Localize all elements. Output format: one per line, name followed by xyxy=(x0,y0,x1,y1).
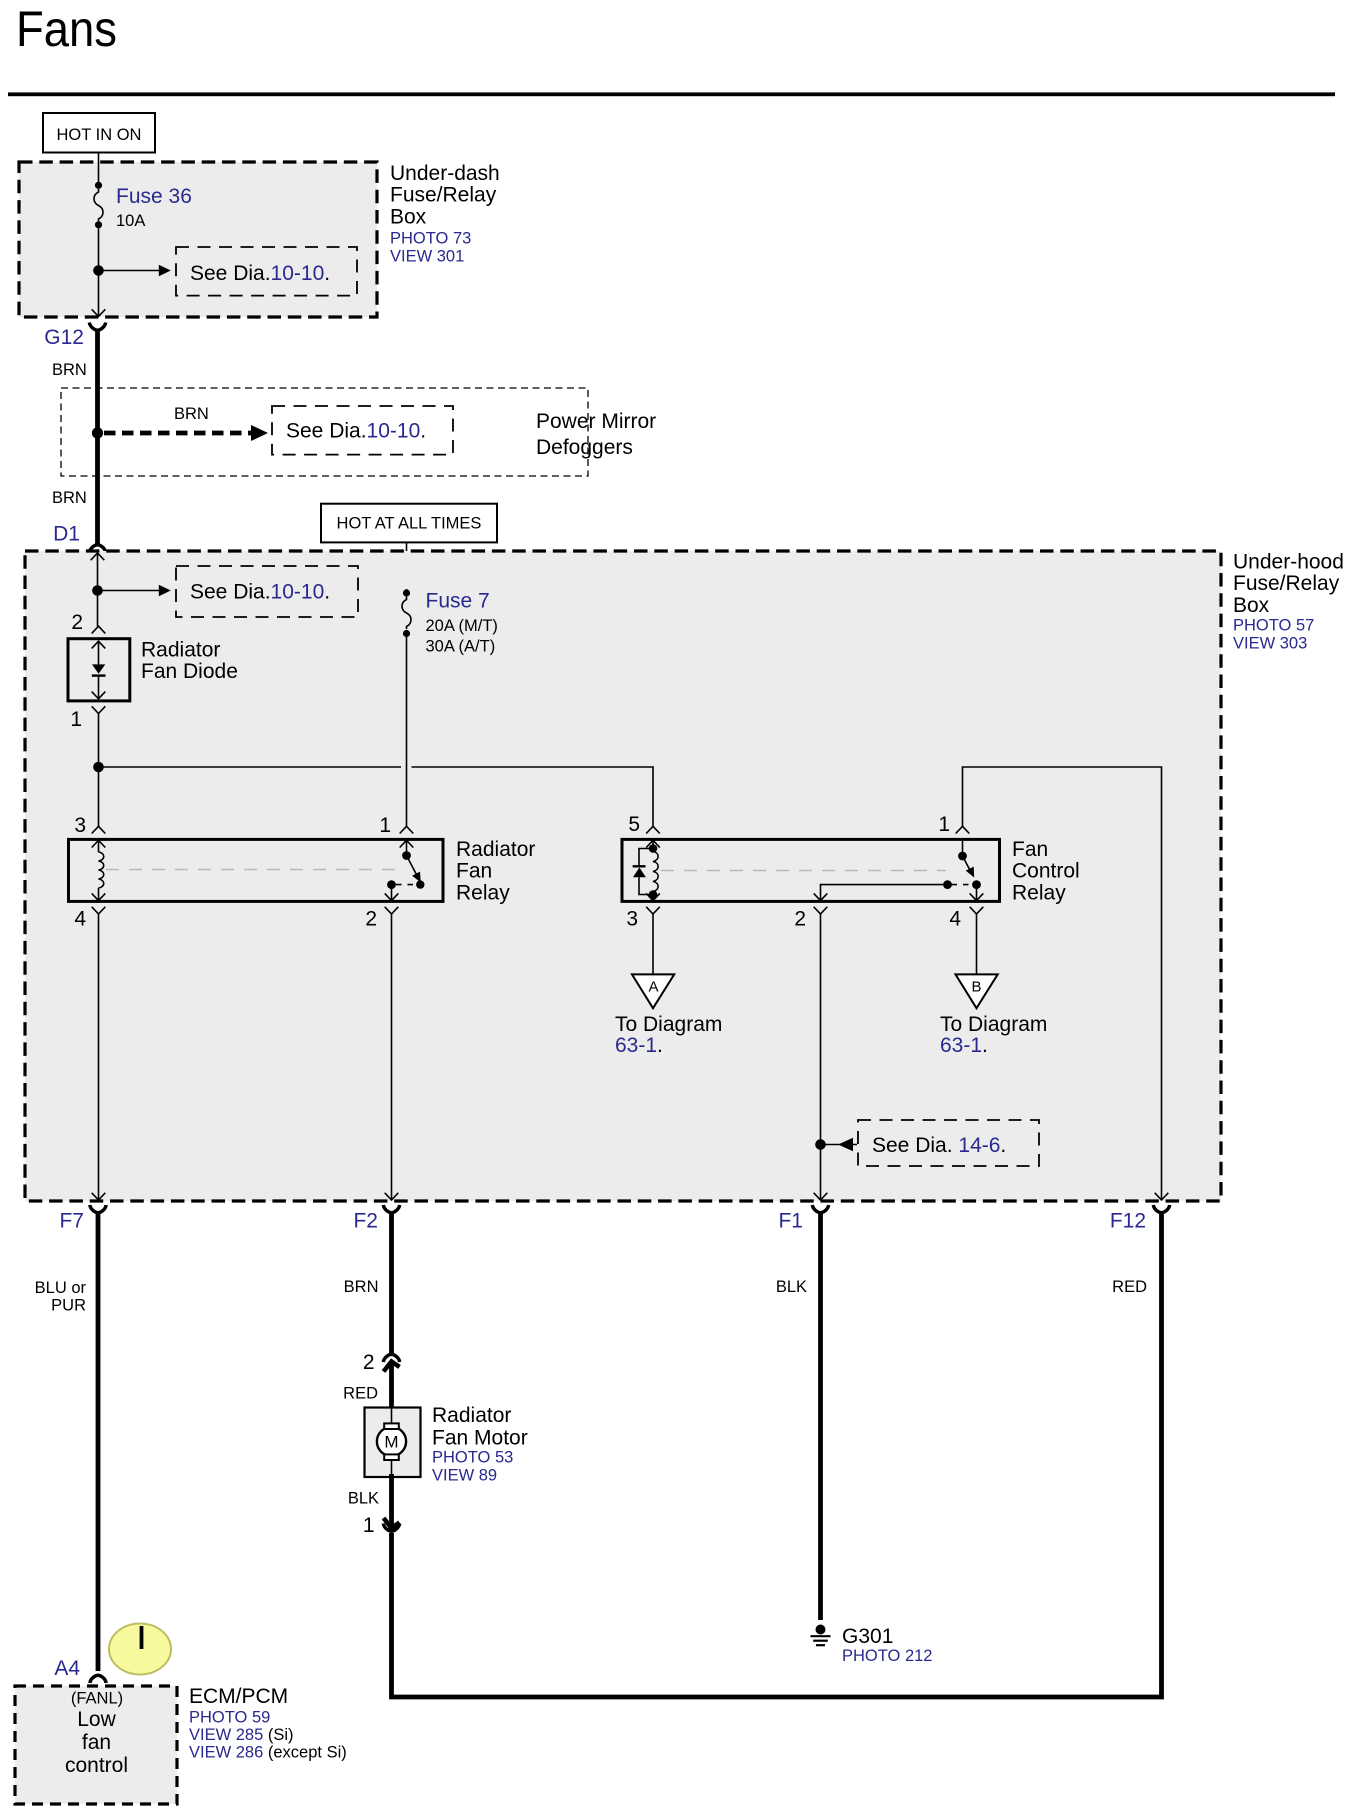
radiator fan relay coil xyxy=(92,840,106,900)
wire F2 to connector 2 (thick BRN) xyxy=(389,1212,394,1355)
wire F7 to A4 (thick) xyxy=(96,1212,101,1671)
node D1 label xyxy=(53,523,80,546)
svg-text:See Dia.10-10.: See Dia.10-10. xyxy=(190,262,330,285)
svg-text:VIEW 303: VIEW 303 xyxy=(1233,635,1307,653)
svg-text:PHOTO 73: PHOTO 73 xyxy=(390,230,471,248)
svg-text:See Dia.10-10.: See Dia.10-10. xyxy=(286,420,426,443)
fan control relay pin 3 label xyxy=(626,908,638,931)
motor pin 2 label xyxy=(363,1351,375,1374)
node A4 label xyxy=(54,1657,80,1680)
junction dot in under-dash box xyxy=(93,265,104,276)
title Fans xyxy=(16,1,117,57)
svg-text:B: B xyxy=(971,979,981,996)
svg-text:Box: Box xyxy=(1233,594,1270,617)
svg-text:Radiator: Radiator xyxy=(432,1404,511,1427)
svg-text:Fans: Fans xyxy=(16,1,117,57)
svg-text:ECM/PCM: ECM/PCM xyxy=(189,1685,288,1708)
svg-text:1: 1 xyxy=(938,813,950,836)
arrowhead at G12 box exit xyxy=(92,309,106,316)
svg-text:BRN: BRN xyxy=(52,361,87,379)
wire color BRN (lower) xyxy=(52,489,87,507)
svg-text:BRN: BRN xyxy=(52,489,87,507)
fan control relay pin 4 label xyxy=(949,908,961,931)
connector F7 (female horns) xyxy=(90,1205,106,1213)
fan control relay contact xyxy=(814,840,984,900)
svg-text:Relay: Relay xyxy=(456,881,510,904)
junction dot (see dia branch) xyxy=(92,585,103,596)
diode pin 2 label xyxy=(71,611,83,634)
fan control relay coil with diode xyxy=(633,840,660,900)
radiator fan diode label xyxy=(141,639,238,684)
wire color RED (F12) xyxy=(1112,1278,1147,1296)
svg-text:See Dia. 14-6.: See Dia. 14-6. xyxy=(872,1134,1006,1157)
radiator fan relay contact xyxy=(385,840,425,900)
svg-text:Under-dash: Under-dash xyxy=(390,162,500,185)
svg-text:63-1.: 63-1. xyxy=(615,1034,663,1057)
ECM/PCM box xyxy=(15,1686,177,1804)
inline connector 1 xyxy=(383,1518,399,1531)
arrowheads at box bottom exits xyxy=(92,1193,1169,1200)
svg-text:30A (A/T): 30A (A/T) xyxy=(426,638,496,656)
ECM/PCM labels xyxy=(189,1685,347,1762)
under-dash fuse/relay box xyxy=(19,162,377,317)
svg-text:2: 2 xyxy=(363,1351,375,1374)
svg-text:RED: RED xyxy=(343,1385,378,1403)
svg-text:Power Mirror: Power Mirror xyxy=(536,410,656,433)
svg-text:F12: F12 xyxy=(1110,1210,1146,1233)
connector D1 (female horns) xyxy=(89,545,105,553)
branch arrow to See Dia.10-10 (under-dash) xyxy=(99,265,171,277)
svg-text:M: M xyxy=(384,1433,398,1452)
svg-text:RED: RED xyxy=(1112,1278,1147,1296)
off-page connector B xyxy=(956,974,998,1008)
fan control relay pin 5 label xyxy=(628,813,640,836)
svg-text:5: 5 xyxy=(628,813,640,836)
pin 2 connector caret xyxy=(814,907,828,914)
wire rail to fan control relay pin 5 xyxy=(99,767,654,826)
pin 2 connector caret xyxy=(385,907,399,914)
fuse 7 label xyxy=(426,590,490,613)
svg-text:Radiator: Radiator xyxy=(141,639,220,662)
inline connector 2 xyxy=(383,1354,399,1371)
radiator fan motor box xyxy=(365,1408,421,1478)
diode pin 1 connector caret xyxy=(92,706,106,713)
HOT AT ALL TIMES label box xyxy=(321,504,497,543)
svg-text:63-1.: 63-1. xyxy=(940,1034,988,1057)
ground G301 xyxy=(811,1625,831,1646)
node F2 label xyxy=(353,1210,378,1233)
title rule xyxy=(8,92,1335,96)
motor M1 symbol xyxy=(377,1408,406,1474)
svg-text:PHOTO 212: PHOTO 212 xyxy=(842,1647,932,1665)
thick dashed BRN branch wire with arrow xyxy=(104,425,268,441)
wire F1 to ground (thick BLK) xyxy=(818,1212,823,1620)
diode pin 2 connector caret xyxy=(92,626,106,633)
svg-text:To Diagram: To Diagram xyxy=(940,1013,1047,1036)
wire relay pin 4 to F7 xyxy=(98,914,100,1199)
svg-text:Control: Control xyxy=(1012,860,1080,883)
pin 5 connector caret xyxy=(646,826,660,833)
svg-text:HOT AT ALL TIMES: HOT AT ALL TIMES xyxy=(337,515,482,533)
wire color BRN (upper) xyxy=(52,361,87,379)
svg-text:Radiator: Radiator xyxy=(456,838,535,861)
splice marker I (yellow) xyxy=(109,1624,171,1675)
svg-text:Fan: Fan xyxy=(1012,838,1048,861)
pin 1 connector caret xyxy=(956,826,970,833)
svg-text:10A: 10A xyxy=(116,212,145,230)
svg-text:PUR: PUR xyxy=(51,1297,86,1315)
fan control relay pin 2 label xyxy=(794,908,806,931)
wire HOT AT ALL TIMES to fuse 7 xyxy=(406,543,408,590)
fan control relay box xyxy=(622,839,1000,901)
radiator fan relay label xyxy=(456,838,535,904)
wire pin 4 to triangle B xyxy=(976,914,978,974)
branch arrow from See Dia 14-6 xyxy=(821,1138,858,1151)
off-page connector A xyxy=(632,974,674,1008)
svg-text:fan: fan xyxy=(82,1731,111,1754)
svg-text:1: 1 xyxy=(379,814,391,837)
fuse F7 xyxy=(402,589,411,637)
wire fuse 7 to relay pin 1 xyxy=(406,637,408,826)
diode symbol (radiator fan diode) xyxy=(92,641,106,699)
svg-text:D1: D1 xyxy=(53,523,80,546)
relay mechanical link (dashed) xyxy=(106,869,400,871)
wire fan control relay pin 1 to F12 xyxy=(963,767,1162,1199)
svg-text:VIEW 285 (Si): VIEW 285 (Si) xyxy=(189,1726,294,1744)
svg-text:A4: A4 xyxy=(54,1657,80,1680)
svg-text:F1: F1 xyxy=(778,1210,803,1233)
wire connector 1 to F12 (thick) xyxy=(392,1211,1162,1697)
svg-text:Fan Diode: Fan Diode xyxy=(141,660,238,683)
svg-text:G301: G301 xyxy=(842,1625,893,1648)
ECM pin function labels xyxy=(65,1690,128,1778)
junction dot (see dia 14-6 branch) xyxy=(815,1139,826,1150)
wire color BLU or PUR xyxy=(35,1279,87,1315)
wire fuse36 to G12 xyxy=(98,228,100,315)
under-dash box labels xyxy=(390,162,500,266)
wire relay pin 2 to F2 xyxy=(391,914,393,1199)
svg-text:BLK: BLK xyxy=(348,1490,379,1508)
svg-text:Fan Motor: Fan Motor xyxy=(432,1427,528,1450)
see dia 10-10 box (under-hood) xyxy=(176,566,358,617)
pin 3 connector caret xyxy=(646,907,660,914)
svg-text:Fan: Fan xyxy=(456,860,492,883)
radiator fan diode box xyxy=(68,639,130,701)
svg-text:PHOTO 59: PHOTO 59 xyxy=(189,1709,270,1727)
fan control relay label xyxy=(1012,838,1080,904)
radiator fan relay pin 2 label xyxy=(365,908,377,931)
pin 1 connector caret xyxy=(400,826,414,833)
see dia 10-10 box (under-dash) xyxy=(176,247,357,296)
pin 4 connector caret xyxy=(970,907,984,914)
diode pin 1 label xyxy=(70,708,82,731)
wire D1 to diode xyxy=(97,553,99,626)
svg-text:Relay: Relay xyxy=(1012,881,1066,904)
relay mechanical link (dashed) xyxy=(661,870,946,872)
see dia 10-10 box (power mirror) xyxy=(272,406,453,455)
wire pin 3 to triangle A xyxy=(652,914,654,974)
radiator fan relay box xyxy=(69,839,444,901)
svg-text:BRN: BRN xyxy=(174,405,209,423)
svg-text:3: 3 xyxy=(626,908,638,931)
junction dot BRN branch xyxy=(92,427,103,438)
node G12 label xyxy=(44,326,84,349)
svg-text:BLK: BLK xyxy=(776,1278,807,1296)
wire pin 2 to F1 xyxy=(820,914,822,1199)
fuse 36 value 10A xyxy=(116,212,145,230)
svg-text:PHOTO 57: PHOTO 57 xyxy=(1233,617,1314,635)
svg-text:1: 1 xyxy=(363,1514,375,1537)
svg-text:2: 2 xyxy=(71,611,83,634)
svg-text:HOT IN ON: HOT IN ON xyxy=(57,126,142,144)
under-hood fuse/relay box xyxy=(25,551,1221,1201)
arrowhead at D1 box entry xyxy=(91,553,105,560)
svg-text:Box: Box xyxy=(390,205,427,228)
pin 3 connector caret xyxy=(92,826,106,833)
svg-text:Fuse/Relay: Fuse/Relay xyxy=(390,184,497,207)
HOT IN ON label box xyxy=(43,113,155,153)
svg-text:VIEW 286 (except Si): VIEW 286 (except Si) xyxy=(189,1744,347,1762)
svg-text:2: 2 xyxy=(365,908,377,931)
connector A4 (female horns) xyxy=(90,1675,106,1683)
svg-text:3: 3 xyxy=(74,814,86,837)
wire G12 to D1 (BRN thick) xyxy=(95,330,100,546)
svg-text:VIEW 89: VIEW 89 xyxy=(432,1467,497,1485)
wire color RED xyxy=(343,1385,378,1403)
junction dot (diode to pin5 rail) xyxy=(93,762,104,773)
motor pin 1 label xyxy=(363,1514,375,1537)
fuse 7 values xyxy=(426,617,498,656)
svg-text:(FANL): (FANL) xyxy=(71,1690,123,1708)
svg-text:F2: F2 xyxy=(353,1210,378,1233)
svg-text:G12: G12 xyxy=(44,326,84,349)
svg-text:F7: F7 xyxy=(59,1210,84,1233)
wire color BLK (F1) xyxy=(776,1278,807,1296)
svg-text:BRN: BRN xyxy=(344,1278,379,1296)
under-hood box labels xyxy=(1233,551,1344,653)
radiator fan relay pin 1 label xyxy=(379,814,391,837)
wire motor to connector 1 (thick BLK) xyxy=(389,1474,394,1526)
fan control relay pin 1 label xyxy=(938,813,950,836)
wire color BRN xyxy=(344,1278,379,1296)
svg-text:See Dia.10-10.: See Dia.10-10. xyxy=(190,581,330,604)
svg-text:control: control xyxy=(65,1754,128,1777)
radiator fan relay pin 4 label xyxy=(74,908,86,931)
ground G301 label xyxy=(842,1625,932,1665)
connector F12 (female horns) xyxy=(1153,1205,1169,1213)
svg-text:Low: Low xyxy=(77,1708,116,1731)
node F7 label xyxy=(59,1210,84,1233)
radiator fan relay pin 3 label xyxy=(74,814,86,837)
svg-text:4: 4 xyxy=(949,908,961,931)
radiator fan motor labels xyxy=(432,1404,528,1485)
to diagram 63-1 label (B) xyxy=(940,1013,1047,1057)
svg-text:VIEW 301: VIEW 301 xyxy=(390,248,464,266)
power mirror defoggers dashed box xyxy=(61,388,588,476)
to diagram 63-1 label (A) xyxy=(615,1013,722,1057)
svg-text:A: A xyxy=(648,979,658,996)
fuse F36 xyxy=(94,182,103,229)
wire diode to relay pin 3 xyxy=(98,714,100,827)
power mirror defoggers label xyxy=(536,410,656,459)
fuse 36 label xyxy=(116,185,192,208)
node F1 label xyxy=(778,1210,803,1233)
wire color BLK xyxy=(348,1490,379,1508)
connector F1 (female horns) xyxy=(812,1205,828,1213)
pin 4 connector caret xyxy=(92,907,106,914)
connector G12 (female horns) xyxy=(89,323,105,331)
svg-text:20A (M/T): 20A (M/T) xyxy=(426,617,498,635)
connector F2 (female horns) xyxy=(383,1205,399,1213)
svg-text:Under-hood: Under-hood xyxy=(1233,551,1344,574)
svg-text:4: 4 xyxy=(74,908,86,931)
svg-text:Defoggers: Defoggers xyxy=(536,436,633,459)
svg-text:1: 1 xyxy=(70,708,82,731)
wire color BRN (branch) xyxy=(174,405,209,423)
see dia 14-6 box xyxy=(858,1120,1039,1166)
svg-text:2: 2 xyxy=(794,908,806,931)
node F12 label xyxy=(1110,1210,1146,1233)
branch arrow to See Dia.10-10 (under-hood) xyxy=(98,585,171,597)
svg-text:Fuse/Relay: Fuse/Relay xyxy=(1233,572,1340,595)
svg-text:Fuse 36: Fuse 36 xyxy=(116,185,192,208)
svg-text:BLU or: BLU or xyxy=(35,1279,87,1297)
svg-text:Fuse 7: Fuse 7 xyxy=(426,590,490,613)
svg-text:PHOTO 53: PHOTO 53 xyxy=(432,1449,513,1467)
svg-text:To Diagram: To Diagram xyxy=(615,1013,722,1036)
wire connector 2 to motor (thick RED) xyxy=(389,1364,394,1409)
wire from HOT IN ON to fuse 36 xyxy=(98,153,100,182)
